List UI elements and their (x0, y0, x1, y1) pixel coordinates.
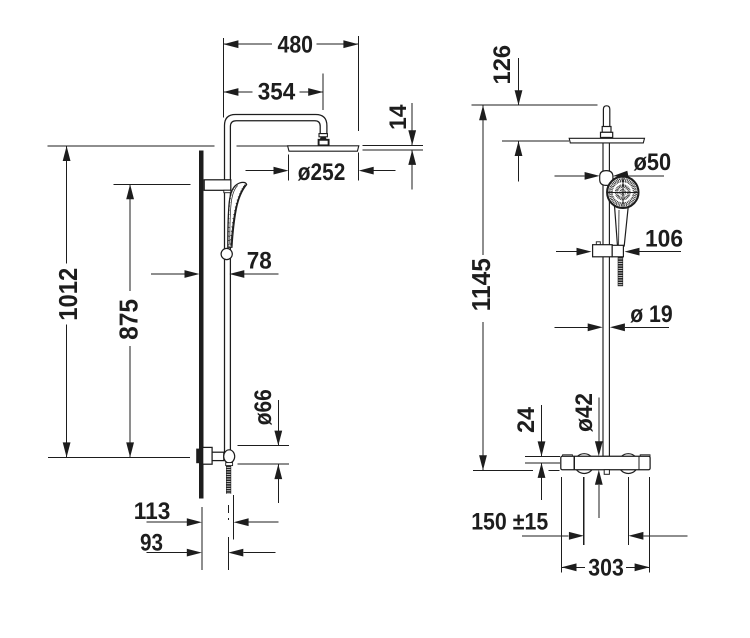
dim 126 (489, 45, 523, 182)
rain shower head disc (side view) (288, 146, 359, 151)
shower riser pipe with arm (left view) (225, 115, 327, 457)
dim 303 (562, 555, 650, 582)
hose ribs (226, 466, 231, 494)
dim 480 (223, 32, 358, 131)
svg-text:93: 93 (140, 530, 163, 557)
head thickness reference lines (363, 145, 423, 150)
bottom outlet flange (black) (196, 449, 204, 464)
top air rod (601, 106, 613, 138)
svg-text:ø42: ø42 (571, 393, 598, 432)
right top reference line (472, 104, 598, 106)
dim 78 (151, 248, 279, 278)
svg-text:303: 303 (588, 555, 624, 582)
svg-text:480: 480 (278, 32, 314, 59)
dim ø42 (571, 393, 603, 518)
dim 1145 (466, 105, 496, 470)
dim 106 (556, 225, 683, 255)
rain head disc (front view) (569, 138, 644, 143)
riser pipe (front view) (603, 138, 609, 457)
shower arm collar (319, 134, 327, 141)
svg-text:354: 354 (258, 78, 296, 105)
dim 150 ±15 (471, 508, 687, 539)
dim ø19 (555, 301, 673, 331)
bottom reference line (48, 456, 190, 458)
svg-text:1012: 1012 (53, 268, 83, 321)
dim 1012 (53, 146, 83, 457)
dim 113 (134, 498, 279, 526)
dim ø50 (554, 149, 671, 180)
thermostat valve body (561, 454, 650, 475)
svg-text:24: 24 (513, 406, 540, 433)
dim ø252 (246, 153, 396, 186)
hose (corrugated, right) (618, 257, 623, 286)
extension lines below valve (562, 477, 650, 573)
top reference line (head plane) (48, 145, 288, 147)
svg-text:ø66: ø66 (250, 389, 277, 425)
hand shower (side profile) (228, 182, 247, 247)
svg-text:ø 19: ø 19 (630, 301, 673, 328)
hand shower handle (front) (614, 203, 628, 246)
hand shower face (606, 176, 639, 209)
outlet ball joint (224, 450, 235, 463)
svg-text:ø252: ø252 (298, 159, 346, 186)
bottom outlet bracket (203, 447, 224, 464)
slider knob (221, 248, 232, 259)
dim 875 (114, 184, 144, 457)
svg-text:150 ±15: 150 ±15 (471, 508, 548, 535)
hose connector (226, 463, 233, 466)
slide bracket (front) (593, 242, 624, 257)
svg-text:1145: 1145 (466, 258, 496, 311)
rain head connector (319, 140, 329, 146)
svg-text:875: 875 (114, 299, 144, 340)
svg-text:106: 106 (645, 225, 683, 252)
dim 354 (223, 74, 323, 111)
wall (199, 150, 204, 498)
dim 24 (513, 405, 560, 500)
svg-text:126: 126 (489, 45, 516, 85)
svg-text:113: 113 (134, 498, 171, 525)
1145 bottom reference line (473, 469, 560, 471)
disc reference line (502, 140, 569, 142)
wall bracket top (left view) (204, 180, 231, 193)
svg-text:14: 14 (385, 104, 412, 130)
dim ø66 (238, 389, 290, 503)
875 top reference line (113, 183, 190, 185)
svg-text:78: 78 (247, 248, 272, 275)
extension lines 113/93 (202, 495, 234, 570)
dim 14 (385, 103, 416, 190)
dim 93 (140, 530, 276, 557)
svg-text:ø50: ø50 (634, 149, 672, 176)
holder ball (600, 171, 613, 186)
